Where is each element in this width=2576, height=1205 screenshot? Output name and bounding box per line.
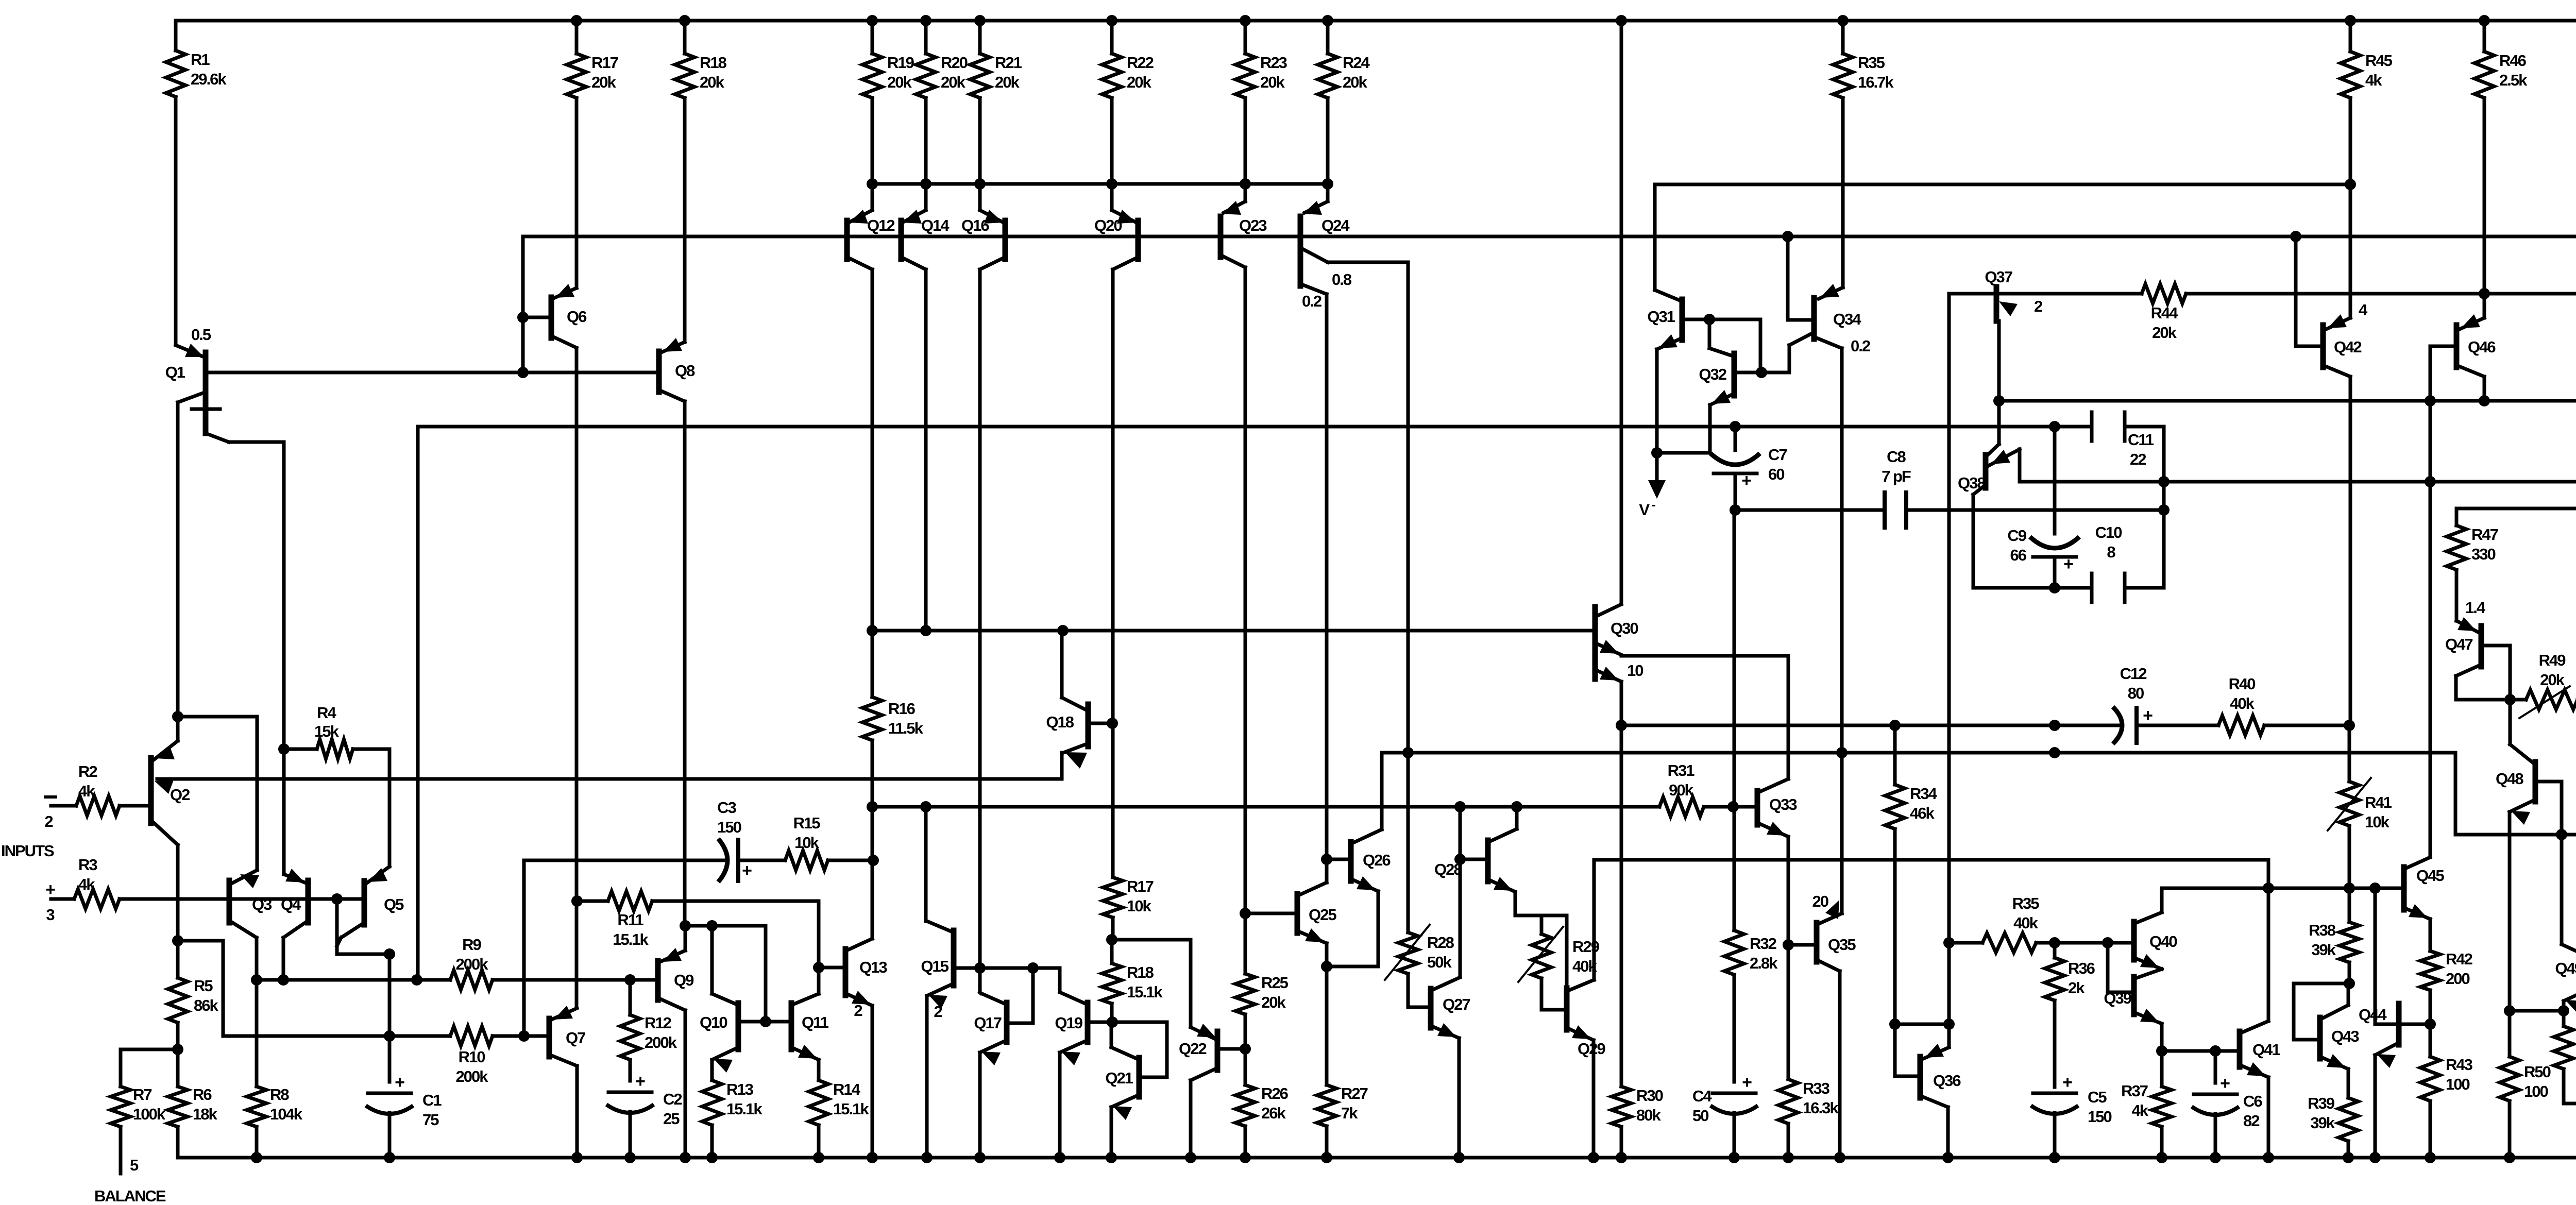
wire x433 corner (178, 941, 223, 1036)
junction on V- rail (1834, 1152, 1845, 1163)
junction (278, 743, 290, 755)
wire Q28 coll up (1515, 807, 1519, 829)
svg-text:0.2: 0.2 (1851, 337, 1870, 355)
resistor R41 10k (2340, 782, 2359, 888)
wire Q15 base line (956, 966, 1060, 970)
junction on V+ rail (2479, 15, 2490, 26)
svg-text:20k: 20k (2152, 324, 2177, 342)
wire Q14 collector (924, 269, 928, 629)
svg-text:Q15: Q15 (921, 957, 948, 975)
svg-text:R23: R23 (1260, 54, 1287, 72)
wire Q5 collector link (337, 899, 389, 954)
svg-text:Q44: Q44 (2359, 1006, 2387, 1024)
svg-text:80: 80 (2128, 684, 2144, 702)
transistor Q5 (341, 867, 404, 938)
resistor R21 20k (970, 21, 1022, 184)
resistor R43 100 (2420, 1024, 2473, 1158)
capacitor C12 80 (2113, 665, 2153, 744)
svg-text:16.7k: 16.7k (1858, 73, 1894, 91)
resistor R22 20k (1102, 21, 1154, 184)
junction (2290, 231, 2301, 242)
junction (1057, 625, 1069, 636)
junction on V- rail (2425, 1152, 2436, 1163)
junction (2344, 978, 2355, 989)
svg-text:R49: R49 (2539, 651, 2566, 669)
capacitor C6 82 (2192, 1074, 2262, 1130)
wire Q54 base line y778 (1999, 399, 2576, 403)
wire x1693 mid (871, 807, 874, 939)
junction on V- rail (2156, 1152, 2167, 1163)
svg-text:C8: C8 (1887, 448, 1906, 466)
junction (2049, 937, 2060, 948)
wire Q27 collector up (1459, 859, 1462, 977)
junction on V- rail (1728, 1152, 1740, 1163)
wire Q25 coll up (1325, 859, 1329, 882)
junction (1454, 854, 1466, 865)
junction on mirror bus (920, 178, 931, 190)
capacitor C4 50 (1692, 1073, 1758, 1125)
svg-text:R42: R42 (2446, 950, 2472, 968)
wire Q40 collector (2162, 888, 2268, 912)
capacitor C7 (1710, 427, 1787, 510)
wire Q30 base line y1224 (872, 629, 1595, 633)
wire Q21 loop right (1112, 1022, 1167, 1077)
wire Q27 emitter (1458, 1038, 1461, 1158)
svg-text:R43: R43 (2446, 1056, 2473, 1074)
resistor R23 20k (1235, 21, 1287, 184)
resistor R28 50k (1398, 932, 1418, 1007)
junction (2049, 747, 2060, 758)
wire Q32 base corner (1759, 319, 1762, 372)
resistor R49 20k (2510, 690, 2576, 709)
transistor Q17 (974, 993, 1007, 1065)
wire Q43 emitter (2347, 1069, 2350, 1098)
transistor Q26 (1351, 829, 1391, 891)
transistor Q25 (1297, 882, 1336, 943)
svg-text:+: + (2063, 554, 2073, 574)
svg-text:R35: R35 (2012, 894, 2040, 912)
junction (1704, 314, 1715, 325)
resistor R51 82k (2554, 1011, 2576, 1104)
wire R41 slash (2328, 778, 2371, 830)
resistor R34 46k (1885, 785, 1938, 1024)
svg-text:Q20: Q20 (1094, 216, 1122, 234)
svg-text:11.5k: 11.5k (888, 719, 924, 737)
junction (1321, 854, 1332, 865)
svg-text:2: 2 (854, 1002, 862, 1020)
wire Q44 base (2375, 888, 2399, 1024)
wire Q22 upper loop (1112, 940, 1191, 1027)
junction (2049, 421, 2060, 432)
wire Q35 base (1788, 943, 1817, 947)
wire C1 bottom (388, 1113, 392, 1158)
junction (172, 711, 183, 722)
wire Q10 base seg (738, 1020, 791, 1024)
svg-text:+: + (742, 861, 752, 880)
resistor R24 20k (1318, 21, 1370, 184)
junction (1454, 801, 1466, 812)
junction (1106, 934, 1117, 945)
svg-text:0.8: 0.8 (1332, 270, 1352, 288)
svg-text:150: 150 (2088, 1108, 2111, 1126)
svg-text:Q35: Q35 (1828, 936, 1856, 954)
wire Q35 emitter (1838, 971, 1842, 1158)
wire Q39 emitter (2160, 1024, 2164, 1051)
svg-text:R7: R7 (133, 1085, 151, 1104)
svg-text:R40: R40 (2229, 675, 2256, 693)
junction (1651, 447, 1663, 459)
svg-text:0.2: 0.2 (1302, 292, 1321, 310)
svg-text:R26: R26 (1261, 1084, 1289, 1102)
svg-text:C4: C4 (1692, 1087, 1712, 1105)
wire Q39 base loop (2108, 943, 2134, 992)
label R35b (2012, 894, 2040, 932)
svg-text:7k: 7k (1341, 1104, 1358, 1122)
wire Q16 collector (978, 269, 982, 968)
wire Q25 base (1245, 912, 1297, 915)
svg-text:Q25: Q25 (1309, 906, 1336, 924)
wire Q36 collector (1946, 1107, 1950, 1158)
resistor R29 40k (1532, 934, 1551, 1010)
transistor Q24 (1300, 184, 1352, 310)
junction on V- rail (2369, 1152, 2381, 1163)
svg-text:86k: 86k (194, 996, 218, 1014)
resistor R16 11.5k (862, 631, 924, 807)
svg-text:20k: 20k (1127, 73, 1151, 91)
wire Q22 base (1217, 1047, 1245, 1051)
svg-text:Q29: Q29 (1578, 1040, 1605, 1058)
transistor Q42 (2323, 301, 2368, 377)
svg-text:Q18: Q18 (1046, 713, 1074, 731)
wire Q35 coll up (1840, 753, 1844, 913)
wire Q18 collector (1060, 631, 1064, 698)
svg-text:4k: 4k (78, 875, 95, 893)
resistor R42 200 (2420, 919, 2472, 1024)
resistor R40 40k (2218, 716, 2349, 735)
wire Q24 c02 down (1325, 294, 1329, 859)
resistor R38 39k (2309, 888, 2359, 983)
svg-text:Q45: Q45 (2416, 867, 2444, 885)
svg-text:V: V (1639, 501, 1650, 519)
junction (1943, 1019, 1955, 1030)
junction (1889, 1019, 1901, 1030)
wire C10 line y1141 (1973, 586, 2164, 590)
wire R11 line (577, 899, 608, 903)
transistor Q6 (551, 284, 587, 348)
wire y828 left drop (416, 427, 420, 980)
wire C3 left line (524, 860, 725, 1036)
resistor R37 4k (2121, 1051, 2172, 1158)
wire Q19 base (1088, 1021, 1112, 1024)
junction on V- rail (2263, 1152, 2274, 1163)
junction on V- rail (706, 1152, 718, 1163)
transistor Q35 (1812, 892, 1856, 971)
wire Q29 emitter (1592, 1040, 1596, 1158)
svg-text:R38: R38 (2309, 921, 2336, 939)
resistor R25 20k (1235, 913, 1289, 1049)
svg-text:20k: 20k (995, 73, 1020, 91)
svg-text:R5: R5 (194, 977, 213, 995)
svg-text:R34: R34 (1910, 785, 1938, 803)
junction on V+ rail (1837, 15, 1849, 26)
wire C8 line y990 (1735, 508, 2164, 512)
svg-text:Q9: Q9 (674, 971, 694, 989)
label R29 40k (1572, 938, 1600, 975)
junction on V- rail (2049, 1152, 2060, 1163)
wire Q42 collector (2349, 377, 2352, 725)
resistor R1 29.6k (166, 21, 227, 345)
wire Q3 collector (255, 938, 259, 980)
svg-text:75: 75 (422, 1111, 439, 1129)
wire x756 col (388, 954, 392, 1082)
wire y1724 line (2162, 887, 2404, 890)
wire y1391 (178, 717, 257, 870)
junction (2049, 582, 2060, 593)
svg-text:Q19: Q19 (1055, 1014, 1082, 1032)
svg-text:+: + (635, 1072, 645, 1091)
svg-text:Q23: Q23 (1239, 216, 1267, 234)
wire C12 line y1408 (1621, 724, 2218, 727)
capacitor C2 25 (606, 1072, 682, 1128)
wire C6 bottom (2214, 1114, 2217, 1158)
transistor Q44 (2359, 1004, 2430, 1068)
svg-text:Q16: Q16 (961, 216, 989, 234)
wire Q49 emitter (2562, 1001, 2566, 1011)
junction on mirror bus (1322, 178, 1333, 190)
svg-text:82: 82 (2243, 1112, 2259, 1130)
junction on V- rail (384, 1152, 395, 1163)
wire Q32 collector link (1709, 319, 1734, 357)
junction (1889, 720, 1901, 731)
svg-text:Q42: Q42 (2334, 338, 2361, 356)
wire Q7 collector drop (575, 1066, 579, 1158)
svg-text:Q28: Q28 (1434, 860, 1462, 878)
junction (920, 625, 931, 636)
junction on V- rail (2210, 1152, 2221, 1163)
svg-text:R2: R2 (78, 762, 97, 780)
junction (2504, 694, 2516, 705)
junction (2479, 288, 2490, 299)
wire R28 to Q27 (1408, 974, 1431, 1007)
svg-text:R35: R35 (1858, 54, 1885, 72)
junction (706, 920, 718, 931)
svg-text:39k: 39k (2310, 1114, 2335, 1132)
wire Q42 base (2296, 236, 2323, 346)
wire mirror bus y357 (872, 182, 1328, 186)
svg-text:Q4: Q4 (281, 895, 301, 913)
transistor Q9 (658, 948, 694, 1010)
wire Q15 emitter (925, 996, 929, 1158)
junction on V+ rail (867, 15, 878, 26)
resistor R19 20k (862, 21, 914, 184)
wire compensation line y828 (418, 425, 2092, 429)
junction (172, 935, 183, 946)
junction on V- rail (571, 1152, 583, 1163)
svg-text:2k: 2k (2068, 979, 2085, 997)
junction on mirror bus (1106, 178, 1117, 190)
svg-text:50k: 50k (1427, 953, 1452, 971)
junction (251, 974, 262, 986)
wire Q44 emitter (2374, 1055, 2377, 1158)
svg-text:330: 330 (2471, 545, 2495, 563)
resistor R47 330 (2447, 508, 2498, 621)
svg-text:Q41: Q41 (2252, 1041, 2280, 1059)
wire y1988 seg (1895, 1023, 1949, 1026)
resistor R31 90k (1517, 797, 1733, 817)
capacitor C11 22 (2092, 412, 2154, 468)
junction (920, 801, 931, 812)
wire OUTPUT line (2020, 480, 2576, 484)
transistor Q4 (281, 869, 308, 938)
svg-text:20k: 20k (941, 73, 965, 91)
svg-text:Q24: Q24 (1321, 216, 1350, 234)
wire Q34 emitter link (1761, 332, 1814, 372)
resistor R18 20k (675, 21, 727, 342)
junction on bias (1782, 231, 1793, 242)
svg-text:Q13: Q13 (859, 958, 887, 976)
wire Q13 base (819, 966, 845, 970)
resistor R13 15.1k (702, 1060, 762, 1158)
svg-text:0.5: 0.5 (191, 326, 211, 344)
junction on V+ rail (920, 15, 931, 26)
svg-text:Q32: Q32 (1699, 365, 1726, 383)
wire Q46 base (2430, 346, 2456, 401)
wire Q33 emitter (1787, 837, 1790, 945)
wire Q47 collector loop (2456, 676, 2510, 700)
svg-text:INPUTS: INPUTS (1, 842, 54, 860)
wire Q48 coll up (2509, 700, 2512, 744)
resistor R14 15.1k (809, 1060, 869, 1158)
wire R44 right (2186, 292, 2576, 296)
wire R29 top lead (1540, 915, 1544, 934)
wire Q18 base (1090, 722, 1112, 725)
svg-text:R22: R22 (1127, 54, 1154, 72)
svg-text:Q27: Q27 (1443, 995, 1470, 1013)
junction (331, 893, 343, 905)
transistor Q31 (1647, 290, 1682, 349)
transistor Q33 (1757, 779, 1797, 837)
junction (2263, 882, 2274, 894)
wire Q17 base loop (1007, 968, 1033, 1023)
svg-text:39k: 39k (2311, 941, 2336, 959)
junction on V- rail (1616, 1152, 1627, 1163)
svg-text:Q43: Q43 (2331, 1027, 2359, 1045)
svg-text:Q6: Q6 (567, 308, 587, 326)
wire Q13 emitter (871, 1006, 874, 1158)
transistor Q47 (2445, 599, 2486, 676)
wire Q8 collector (683, 401, 687, 926)
wire Q4 collector (282, 938, 285, 980)
transistor Q13 (845, 939, 887, 1020)
svg-text:10: 10 (1627, 661, 1643, 680)
label R9 (456, 936, 489, 973)
junction (2158, 504, 2170, 516)
wire R51 to Q52 (2564, 1102, 2576, 1106)
transistor Q34 (1814, 284, 1870, 355)
wire Q1 base line y724 (207, 371, 659, 375)
wire plus input line (120, 897, 364, 901)
resistor R17b 10k (1103, 724, 1154, 940)
junction (384, 948, 395, 960)
wire V- bottom rail (178, 1156, 2576, 1160)
wire Q42 emitter up (2349, 184, 2352, 318)
resistor R35b 40k (1978, 933, 2040, 953)
junction on V- rail (921, 1152, 933, 1163)
junction on V- rail (1321, 1152, 1332, 1163)
transistor Q39 (2104, 969, 2162, 1024)
transistor Q22 (1179, 1024, 1217, 1080)
resistor R11 15.1k (608, 891, 652, 911)
label R2 (78, 762, 97, 800)
wire Q15 collector up (924, 807, 928, 921)
svg-text:R9: R9 (462, 936, 481, 954)
svg-text:15.1k: 15.1k (833, 1100, 869, 1118)
wire Q48 base (2537, 782, 2562, 835)
wire line y1461 (1408, 751, 2455, 755)
svg-text:1.4: 1.4 (2465, 599, 2486, 617)
svg-text:C3: C3 (717, 799, 736, 817)
wire y1669 to y1724 (2267, 860, 2270, 888)
junction (2556, 829, 2567, 840)
svg-text:20k: 20k (700, 73, 724, 91)
junction (813, 962, 824, 973)
svg-text:C5: C5 (2088, 1088, 2107, 1106)
junction (2425, 476, 2436, 487)
transistor Q8 (659, 338, 695, 401)
svg-text:R27: R27 (1341, 1084, 1368, 1102)
junction on mirror bus (1240, 178, 1251, 190)
junction (1240, 1043, 1251, 1055)
svg-text:R19: R19 (887, 54, 914, 72)
wire Q31 emitter drop (1655, 349, 1659, 484)
svg-text:R21: R21 (995, 54, 1022, 72)
svg-text:R28: R28 (1427, 934, 1454, 952)
wire Q1 second collector drop (282, 442, 286, 749)
svg-text:7 pF: 7 pF (1882, 467, 1911, 485)
svg-text:Q36: Q36 (1933, 1072, 1961, 1090)
transistor Q18 (1046, 698, 1088, 769)
svg-text:Q5: Q5 (384, 895, 404, 913)
wire R4 corner (388, 749, 392, 867)
svg-text:+: + (2143, 706, 2153, 725)
wire y358 segment right (1655, 183, 2350, 186)
junction (571, 895, 583, 907)
wire y2040 line (2162, 1049, 2240, 1053)
junction (974, 962, 986, 974)
junction (868, 855, 879, 866)
svg-text:60: 60 (1768, 465, 1784, 483)
junction (1756, 367, 1767, 378)
transistor Q37 (1985, 268, 2042, 321)
junction on V+ rail (571, 15, 582, 26)
svg-text:R36: R36 (2068, 959, 2095, 977)
junction (517, 367, 529, 378)
junction on V+ rail (2345, 15, 2356, 26)
svg-text:Q1: Q1 (165, 363, 185, 381)
svg-text:Q30: Q30 (1611, 619, 1638, 637)
svg-text:Q46: Q46 (2468, 338, 2496, 356)
wire R35b line (1949, 941, 2134, 945)
transistor Q28 (1434, 829, 1517, 892)
svg-text:R10: R10 (459, 1048, 485, 1066)
junction (411, 974, 422, 986)
wire Q30 em1 line y1275 (1621, 656, 1788, 779)
wire line y1669 (1594, 858, 2268, 862)
wire Q37 base to R44 (2000, 292, 2142, 296)
wire Q34 collector drop (1840, 348, 1844, 753)
wire Q11 collector up (817, 968, 821, 994)
transistor Q32 (1699, 353, 1734, 405)
